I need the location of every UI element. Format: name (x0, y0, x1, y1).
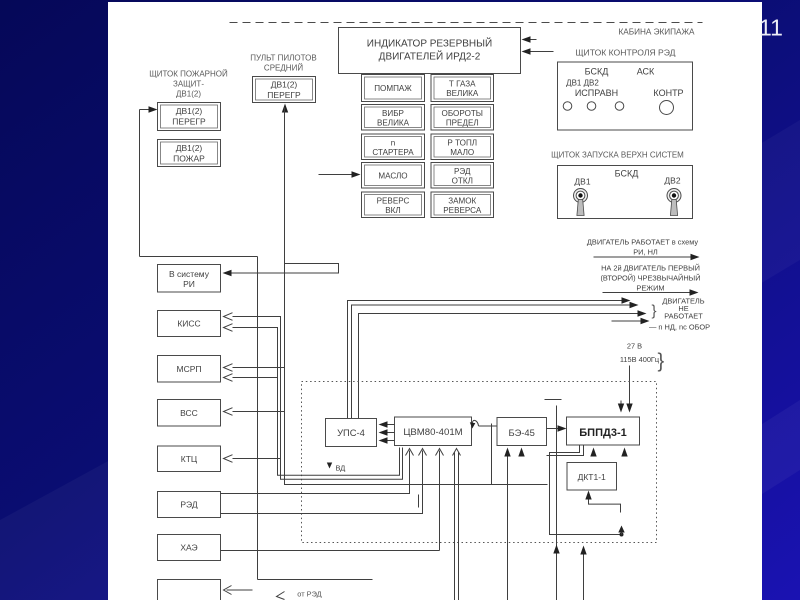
wire MSRP lower (233, 377, 278, 379)
svg-text:БППД3-1: БППД3-1 (579, 427, 626, 439)
svg-text:}: } (658, 351, 665, 373)
wire RED line 2 to CVM (221, 451, 423, 514)
wire vertical channel x=556 (545, 400, 562, 600)
wire MSRP upper (233, 367, 285, 369)
RED control panel box (558, 62, 693, 130)
button KONTR (660, 101, 674, 115)
wire power to BPPD3-1 (629, 366, 631, 409)
wire UPS-4 to engine-not-running 2 (352, 305, 635, 419)
svg-text:ДВИГАТЕЛЕЙ ИРД2-2: ДВИГАТЕЛЕЙ ИРД2-2 (379, 50, 481, 63)
arrowhead up into pilots console annunciator (282, 104, 288, 113)
svg-text:115В 400Гц: 115В 400Гц (620, 355, 660, 364)
wire arrow 4 (612, 320, 646, 322)
svg-text:ДВИГАТЕЛЬ РАБОТАЕТ в схему: ДВИГАТЕЛЬ РАБОТАЕТ в схему (587, 238, 698, 247)
wire stub into BE-45 bottom (518, 448, 524, 457)
svg-text:ИСПРАВН: ИСПРАВН (575, 88, 618, 98)
svg-text:ВИБР: ВИБР (382, 109, 404, 118)
svg-text:ПЕРЕГР: ПЕРЕГР (172, 117, 206, 127)
wire HAE to CVM and bottom (221, 451, 440, 551)
svg-text:СРЕДНИЙ: СРЕДНИЙ (264, 64, 303, 73)
annunciator Т ГАЗА (431, 75, 494, 102)
svg-text:ВЕЛИКА: ВЕЛИКА (446, 89, 479, 98)
svg-text:11: 11 (759, 15, 783, 41)
box DKT1-1 (567, 463, 617, 491)
svg-text:}: } (652, 303, 657, 320)
svg-text:СТАРТЕРА: СТАРТЕРА (372, 148, 414, 157)
svg-text:ХАЭ: ХАЭ (180, 543, 197, 553)
wire arrow into IRD2-2 upper (525, 39, 537, 41)
svg-text:БСКД: БСКД (585, 67, 609, 77)
hollow arrowheads into left boxes (224, 313, 233, 463)
wire stub arrow at loop end (618, 526, 624, 535)
svg-text:ИНДИКАТОР РЕЗЕРВНЫЙ: ИНДИКАТОР РЕЗЕРВНЫЙ (367, 37, 492, 50)
svg-text:КИСС: КИСС (177, 319, 200, 329)
indicator IRD2-2 header box (339, 28, 521, 74)
box bottom consumer (158, 580, 221, 600)
svg-text:(ВТОРОЙ) ЧРЕЗВЫЧАЙНЫЙ: (ВТОРОЙ) ЧРЕЗВЫЧАЙНЫЙ (600, 274, 700, 283)
svg-text:— n НД, nс ОБОР: — n НД, nс ОБОР (649, 323, 710, 332)
lamp DV2 (587, 102, 596, 111)
wires CVM to UPS-4 (three arrows) (379, 421, 395, 443)
svg-text:ДВ1 ДВ2: ДВ1 ДВ2 (566, 79, 599, 88)
wire KTC (233, 458, 281, 460)
box V sistemu RI (158, 265, 221, 293)
annunciator ВИБР (362, 105, 425, 131)
wire arrow engine works (594, 256, 695, 258)
svg-text:n: n (391, 138, 396, 147)
svg-text:УПС-4: УПС-4 (337, 427, 365, 438)
svg-text:МАСЛО: МАСЛО (378, 171, 407, 180)
svg-text:Т ГАЗА: Т ГАЗА (449, 80, 476, 89)
wire BE-45 drop to loop bus (491, 424, 493, 485)
wire spur to V sistemu RI (223, 264, 339, 277)
wire BPPD3-1 bottom-left L-loop (547, 445, 624, 537)
annunciator DV1(2) PEREGR (pilots console) (253, 77, 316, 103)
toggle switch DV1 (574, 189, 588, 216)
wire from ot RED riser into PEREGR annunciator (140, 106, 158, 256)
wire stub to BPPD3-1 top (620, 401, 622, 409)
svg-text:ПОЖАР: ПОЖАР (173, 154, 205, 164)
annunciator МАСЛО (362, 163, 425, 189)
svg-text:ПРЕДЕЛ: ПРЕДЕЛ (446, 118, 479, 127)
annunciator DV1(2) PEREGR (fire panel) (158, 103, 221, 131)
VD pressure label (327, 463, 345, 473)
svg-text:ПЕРЕГР: ПЕРЕГР (267, 90, 301, 100)
svg-text:ЩИТОК КОНТРОЛЯ РЭД: ЩИТОК КОНТРОЛЯ РЭД (575, 48, 675, 58)
box BPPD3-1 (567, 417, 640, 445)
svg-text:МСРП: МСРП (177, 364, 202, 374)
wire ot RED into bottom consumer (224, 586, 322, 600)
svg-text:ДВ1(2): ДВ1(2) (176, 90, 201, 99)
svg-text:МАЛО: МАЛО (450, 148, 474, 157)
svg-text:ВСС: ВСС (180, 408, 198, 418)
lamp DV1 (563, 102, 572, 111)
svg-text:В систему: В систему (169, 269, 210, 279)
wire UPS-4 to engine-not-running 1 (348, 301, 627, 419)
svg-text:РИ, НЛ: РИ, НЛ (633, 248, 658, 257)
hook wire BE-45 to CVM right edge (470, 420, 497, 428)
wire into DKT1-1 bottom (585, 491, 620, 513)
box KISS (158, 311, 221, 337)
lamp ASK (615, 102, 624, 111)
svg-text:КТЦ: КТЦ (181, 454, 198, 464)
wire stubs into BPPD3-1 bottom (590, 448, 627, 457)
svg-text:КОНТР: КОНТР (653, 88, 683, 98)
box CVM80-401M (395, 417, 472, 446)
cabin boundary dashed line (230, 22, 703, 24)
wire arrow emergency mode (603, 292, 695, 294)
wire long into BE-45 bottom (504, 448, 510, 600)
wire UPS-4 to engine-not-running 3 (359, 314, 643, 419)
wire KISS lower loop (233, 328, 400, 476)
svg-text:27 В: 27 В (627, 342, 642, 351)
svg-text:РЕВЕРС: РЕВЕРС (377, 196, 410, 205)
annunciator РЕВЕРС (362, 192, 425, 218)
box RED (158, 492, 221, 518)
svg-text:КАБИНА ЭКИПАЖА: КАБИНА ЭКИПАЖА (618, 28, 695, 37)
wire double channel from bottom to CVM (455, 453, 459, 600)
svg-text:ЩИТОК ПОЖАРНОЙ: ЩИТОК ПОЖАРНОЙ (149, 70, 228, 79)
box HAE (158, 535, 221, 561)
svg-text:ДВ2: ДВ2 (664, 176, 680, 186)
toggle switch DV2 (667, 189, 681, 216)
wire crossing tick (418, 495, 420, 508)
svg-text:ОТКЛ: ОТКЛ (452, 176, 473, 185)
svg-text:РАБОТАЕТ: РАБОТАЕТ (664, 312, 703, 321)
svg-text:РЕВЕРСА: РЕВЕРСА (443, 206, 482, 215)
wire RED line 1 to CVM (221, 451, 410, 494)
annunciator DV1(2) POJAR (fire panel) (158, 140, 221, 167)
wire arrow into MASLO annunciator (319, 174, 356, 176)
dashed BSKD equipment enclosure (302, 382, 657, 543)
box BE-45 (497, 418, 547, 446)
svg-text:РЭД: РЭД (454, 167, 471, 176)
wire VSS (233, 411, 285, 413)
svg-text:ПУЛЬТ ПИЛОТОВ: ПУЛЬТ ПИЛОТОВ (250, 54, 316, 63)
annunciator ПОМПАЖ (362, 75, 425, 102)
svg-text:ДВ1: ДВ1 (574, 177, 590, 187)
svg-text:ДВ1(2): ДВ1(2) (271, 80, 298, 90)
svg-text:Р ТОПЛ: Р ТОПЛ (447, 138, 477, 147)
wire KISS upper loop (233, 317, 403, 480)
wire pilots-console riser (PEREGR to CVM loop) (285, 108, 548, 485)
wire ot RED riser to fire panel (140, 257, 373, 580)
wire vertical channel x=582 (580, 546, 586, 600)
wire arrow into IRD2-2 lower (525, 51, 554, 53)
svg-text:ЗАМОК: ЗАМОК (448, 196, 476, 205)
annunciator ОБОРОТЫ (431, 105, 494, 131)
hollow arrowheads into CVM bottom (406, 449, 461, 456)
box VSS (158, 400, 221, 427)
svg-text:РЭД: РЭД (180, 500, 197, 510)
svg-text:ОБОРОТЫ: ОБОРОТЫ (442, 109, 483, 118)
svg-text:ДВ1(2): ДВ1(2) (176, 106, 203, 116)
svg-text:ВКЛ: ВКЛ (385, 206, 400, 215)
svg-text:НА 2й ДВИГАТЕЛЬ ПЕРВЫЙ: НА 2й ДВИГАТЕЛЬ ПЕРВЫЙ (601, 264, 700, 273)
BSKD power panel box (558, 166, 693, 219)
annunciator Р ТОПЛ (431, 134, 494, 160)
box UPS-4 (326, 419, 377, 447)
svg-text:ВЕЛИКА: ВЕЛИКА (377, 118, 410, 127)
svg-text:АСК: АСК (637, 67, 655, 77)
svg-text:ЦВМ80-401М: ЦВМ80-401М (403, 427, 462, 438)
box MSRP (158, 356, 221, 383)
svg-text:от РЭД: от РЭД (297, 590, 321, 599)
svg-text:БСКД: БСКД (615, 169, 639, 179)
svg-text:ВД: ВД (336, 464, 346, 473)
annunciator n (362, 134, 425, 160)
svg-text:РЕЖИМ: РЕЖИМ (636, 284, 664, 293)
svg-text:ЩИТОК ЗАПУСКА ВЕРХН СИСТЕМ: ЩИТОК ЗАПУСКА ВЕРХН СИСТЕМ (551, 151, 684, 160)
svg-text:РИ: РИ (183, 279, 195, 289)
svg-text:ЗАЩИТ-: ЗАЩИТ- (173, 80, 204, 89)
svg-text:ДВ1(2): ДВ1(2) (176, 143, 203, 153)
svg-text:ДКТ1-1: ДКТ1-1 (578, 472, 606, 482)
svg-text:ПОМПАЖ: ПОМПАЖ (374, 84, 412, 93)
box KTC (158, 446, 221, 472)
annunciator РЭД (431, 163, 494, 189)
annunciator ЗАМОК (431, 192, 494, 218)
svg-text:БЭ-45: БЭ-45 (509, 427, 535, 438)
wire arrow BE-45 to BPPD3-1 (547, 428, 563, 430)
